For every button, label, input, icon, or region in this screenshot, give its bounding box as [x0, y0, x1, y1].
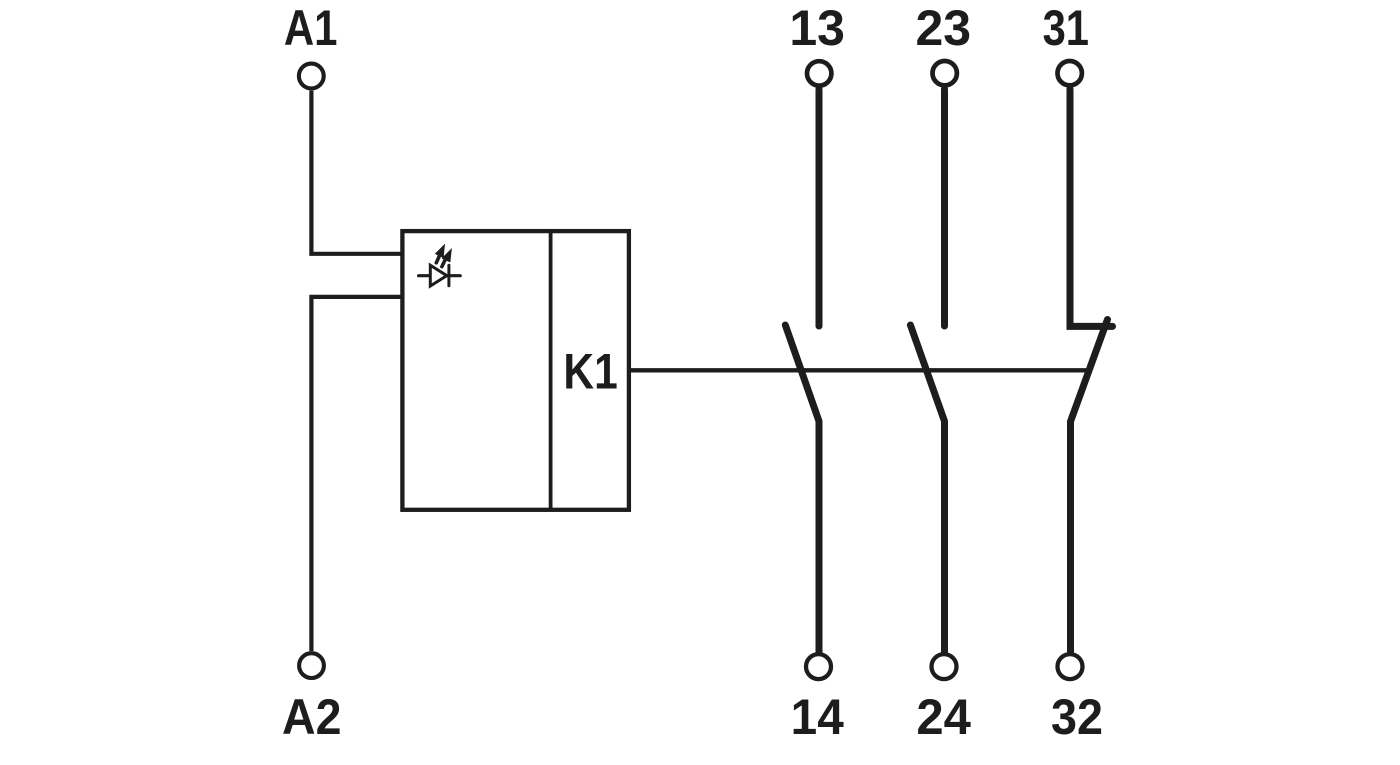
contact 31-32 moving blade [1071, 320, 1108, 652]
wire A2 to coil [311, 297, 404, 651]
svg-text:A1: A1 [284, 0, 338, 56]
terminal circle A2 [299, 653, 324, 678]
contact 23-24 moving blade [910, 325, 944, 652]
svg-text:K1: K1 [563, 343, 617, 399]
contact 13 fixed wire [816, 89, 823, 326]
contact 13-14 moving blade [785, 325, 819, 652]
contact 23 terminal circle [933, 61, 957, 85]
terminal circle A1 [299, 64, 324, 89]
LED arrow 1 [435, 244, 445, 263]
LED arrow 2 [442, 248, 452, 267]
contact 13 terminal circle [807, 61, 831, 85]
contact 32 terminal circle [1058, 654, 1083, 679]
contact 31 terminal circle [1058, 61, 1082, 85]
contact 23 fixed wire [941, 89, 948, 326]
svg-text:14: 14 [791, 690, 844, 745]
svg-text:24: 24 [916, 689, 971, 745]
contact 14 terminal circle [806, 654, 831, 679]
svg-text:32: 32 [1051, 689, 1103, 745]
contact 24 terminal circle [932, 654, 957, 679]
svg-text:31: 31 [1043, 0, 1089, 56]
LED indicator diode [419, 265, 461, 286]
actuation line from K1 to contacts [631, 368, 1087, 372]
contact 31 fixed wire with seat bar [1070, 89, 1113, 326]
wire A1 to coil [311, 91, 404, 254]
svg-text:A2: A2 [282, 689, 341, 745]
svg-text:23: 23 [915, 0, 971, 56]
relay coil box K1 [402, 231, 629, 510]
svg-text:13: 13 [789, 0, 845, 56]
coil box divider [549, 231, 553, 510]
